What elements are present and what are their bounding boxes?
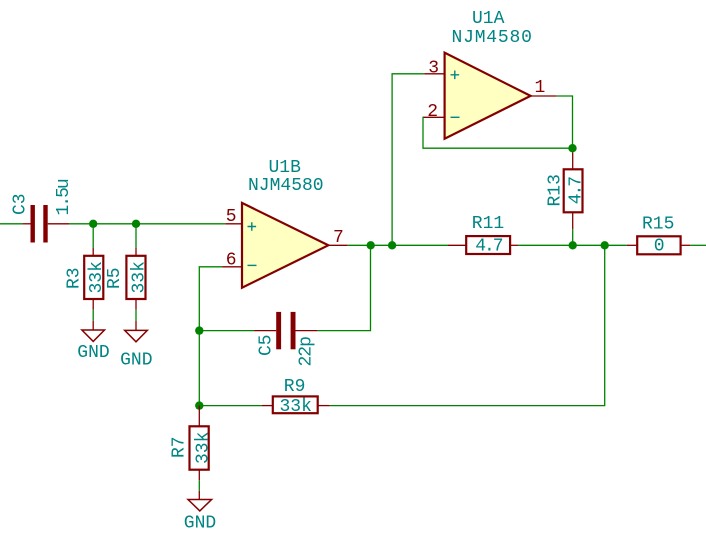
svg-text:7: 7 xyxy=(333,228,344,248)
svg-text:R15: R15 xyxy=(642,215,674,235)
wire R7 to ground xyxy=(198,480,200,491)
resistor R9 xyxy=(262,396,330,413)
node junction R9 riser xyxy=(601,241,609,249)
svg-text:4.7: 4.7 xyxy=(567,177,587,205)
wire R9 to junction xyxy=(199,405,261,407)
resistor R11 xyxy=(448,236,518,254)
wire up to U1A pin 3 xyxy=(392,74,424,246)
U1B pin 6 xyxy=(222,250,242,270)
svg-text:GND: GND xyxy=(120,351,152,371)
wire C5 right up to output net xyxy=(318,245,371,330)
svg-text:33k: 33k xyxy=(87,261,107,293)
capacitor C5 xyxy=(254,312,318,349)
wire R3 to ground xyxy=(92,310,94,321)
node junction feedback R13 xyxy=(568,144,576,152)
svg-text:R11: R11 xyxy=(472,214,504,234)
svg-text:5: 5 xyxy=(226,207,237,227)
node junction at R7 xyxy=(195,401,203,409)
ground GND under R7 xyxy=(184,491,216,534)
wire junction to R13 xyxy=(572,148,574,152)
wire input left segment xyxy=(0,223,22,225)
resistor R7 xyxy=(190,406,209,481)
svg-text:C5: C5 xyxy=(257,334,277,356)
svg-text:33k: 33k xyxy=(129,261,149,293)
node junction at R3 xyxy=(89,220,97,228)
svg-text:GND: GND xyxy=(184,514,216,534)
wire output net down to R9 xyxy=(330,245,605,405)
svg-text:R9: R9 xyxy=(284,377,306,397)
wire R13 to output net xyxy=(572,229,574,245)
svg-text:NJM4580: NJM4580 xyxy=(248,176,324,196)
svg-text:U1A: U1A xyxy=(472,9,505,29)
node junction output feedback xyxy=(367,241,375,249)
wire U1A output down xyxy=(557,96,573,148)
svg-text:1.5u: 1.5u xyxy=(54,179,74,215)
resistor R15 xyxy=(627,236,690,254)
node junction to U1A pin 3 xyxy=(388,241,396,249)
wire U1A pin 2 feedback xyxy=(423,117,573,148)
wire down to R5 xyxy=(135,224,137,248)
resistor R3 xyxy=(84,248,103,310)
svg-text:3: 3 xyxy=(428,59,439,79)
svg-text:U1B: U1B xyxy=(269,158,302,178)
wire R15 to right edge xyxy=(690,244,706,246)
svg-text:6: 6 xyxy=(226,250,237,270)
U1A pin 1 xyxy=(531,78,557,98)
wire R5 to ground xyxy=(135,310,137,321)
wire C3 to U1B pin 5 xyxy=(69,223,225,225)
svg-text:0: 0 xyxy=(654,237,665,257)
node junction at C5 xyxy=(195,326,203,334)
node junction R13 bottom xyxy=(569,241,577,249)
U1B pin 5 xyxy=(225,207,242,227)
resistor R5 xyxy=(126,248,145,310)
svg-text:2: 2 xyxy=(427,102,438,122)
wire down to R3 xyxy=(92,224,94,248)
svg-text:NJM4580: NJM4580 xyxy=(452,28,533,48)
op-amp U1A xyxy=(445,53,531,139)
wire U1B pin 6 to C5 xyxy=(199,267,222,331)
wire C5 junction down to R9 junction xyxy=(198,331,200,406)
wire R11 to R15 xyxy=(518,244,626,246)
svg-text:R7: R7 xyxy=(169,436,189,458)
svg-text:R13: R13 xyxy=(545,174,565,206)
ground GND under R3 xyxy=(77,321,109,363)
U1A pin 2 xyxy=(423,102,445,122)
op-amp U1B xyxy=(242,203,328,288)
svg-text:R3: R3 xyxy=(64,267,84,289)
wire junction to C5 left xyxy=(199,330,254,332)
svg-text:1: 1 xyxy=(535,78,546,98)
svg-text:R5: R5 xyxy=(105,267,125,289)
svg-text:GND: GND xyxy=(77,343,109,363)
wire output of U1B xyxy=(348,244,448,246)
resistor R13 xyxy=(564,153,583,230)
svg-text:33k: 33k xyxy=(280,397,312,417)
U1B pin 7 xyxy=(328,228,347,248)
ground GND under R5 xyxy=(120,321,152,371)
svg-text:C3: C3 xyxy=(11,193,31,215)
U1A pin 3 xyxy=(424,59,444,79)
node junction at R5 xyxy=(132,220,140,228)
svg-text:4.7: 4.7 xyxy=(475,237,503,257)
svg-text:22p: 22p xyxy=(297,337,317,367)
capacitor C3 xyxy=(22,205,69,243)
svg-text:33k: 33k xyxy=(193,432,213,464)
